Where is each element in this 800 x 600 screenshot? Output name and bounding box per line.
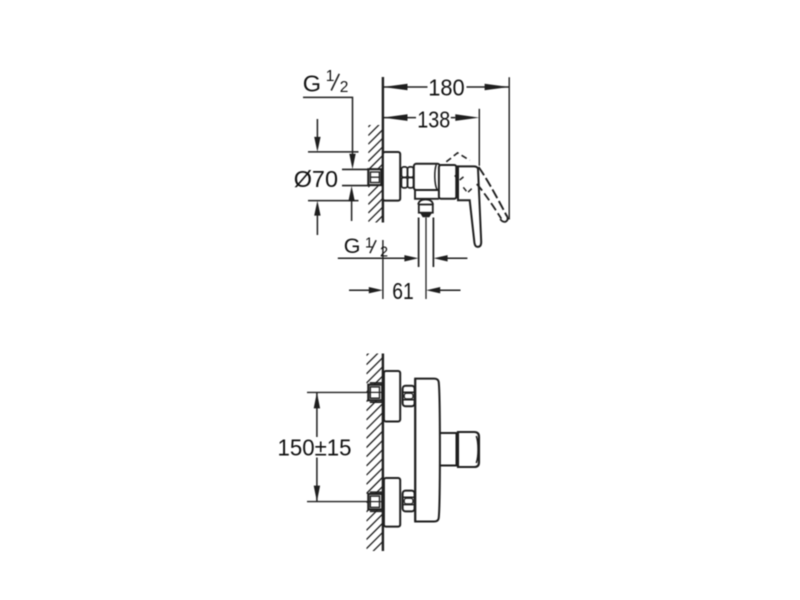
svg-text:150±15: 150±15: [278, 434, 352, 460]
svg-text:61: 61: [392, 278, 414, 304]
svg-text:G: G: [303, 71, 321, 97]
svg-text:180: 180: [428, 75, 465, 101]
svg-text:2: 2: [340, 79, 349, 96]
svg-text:1: 1: [326, 68, 335, 85]
svg-text:Ø70: Ø70: [294, 166, 338, 192]
svg-text:138: 138: [417, 106, 450, 132]
svg-text:G: G: [344, 234, 361, 258]
